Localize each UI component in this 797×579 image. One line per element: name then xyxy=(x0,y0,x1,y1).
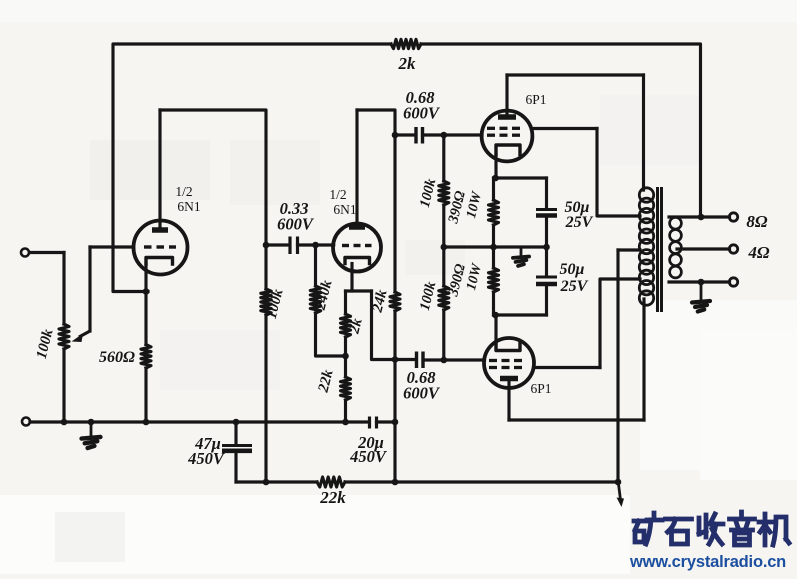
junction 50u rail xyxy=(543,244,550,251)
junction V2 anode node / C3 xyxy=(392,132,399,139)
svg-text:1/2: 1/2 xyxy=(329,187,346,202)
capacitor C9 20u/450V plates xyxy=(370,417,377,429)
output terminal common xyxy=(729,278,737,286)
svg-text:450V: 450V xyxy=(187,449,226,468)
V2 cathode bracket xyxy=(345,258,370,264)
junction V4 cathode xyxy=(492,312,499,319)
wire V2 cathode branch to C5 node xyxy=(372,291,396,360)
wire rail to C7 xyxy=(545,247,548,276)
wire 390ohm to rail (V4) xyxy=(492,247,495,268)
V2 anode plate bar xyxy=(349,224,365,230)
capacitor C3 0.68/600V plates xyxy=(416,127,423,144)
wire V1 cathode down xyxy=(144,264,147,292)
junction V4 grid node xyxy=(441,357,448,364)
capacitor C8 47u/450V plates xyxy=(222,446,252,451)
wire 390ohm to rail xyxy=(492,225,495,247)
svg-text:25V: 25V xyxy=(565,214,594,231)
wire V2 grid to 240k xyxy=(314,245,317,286)
wire bias rail down xyxy=(442,247,445,286)
svg-text:1/2: 1/2 xyxy=(175,184,192,199)
wire V1 grid line xyxy=(90,245,134,248)
wire ground stub (rail) xyxy=(520,247,523,256)
junction grid-return xyxy=(441,244,448,251)
V3 grid dashes (g1,g2) xyxy=(487,128,520,135)
wire V3 anode to primary top xyxy=(507,73,644,76)
junction 47u-ground xyxy=(233,419,240,426)
watermark logotype xyxy=(634,512,789,545)
junction C5 node xyxy=(392,356,399,363)
svg-text:6P1: 6P1 xyxy=(530,381,551,396)
wire 240k to tail junction xyxy=(316,313,346,356)
potentiometer wiper arrow xyxy=(72,331,91,342)
wire B+ riser xyxy=(616,250,619,482)
transformer T1 core xyxy=(658,187,662,312)
wire grid column of V1 down to wiper xyxy=(88,247,91,331)
wire C9 to B+ column xyxy=(377,420,396,423)
junction V1 anode node xyxy=(263,242,270,249)
capacitor C7 50u/25V plates xyxy=(536,277,557,284)
wire V4 anode to primary bottom xyxy=(509,418,644,421)
wire V4 cathode up xyxy=(494,315,497,344)
junction pot-ground xyxy=(61,419,68,426)
V2 grid dashes xyxy=(342,244,372,247)
svg-text:450V: 450V xyxy=(349,447,388,466)
wire to C2 xyxy=(266,243,288,246)
wire C6 to rail xyxy=(545,217,548,247)
capacitor C6 50u/25V plates xyxy=(536,210,557,216)
junction B+ riser xyxy=(615,479,622,486)
wire into V2 grid xyxy=(316,243,334,246)
wire V3 screen to primary tap xyxy=(597,129,640,217)
ground symbol G1 xyxy=(82,437,101,448)
svg-text:8Ω: 8Ω xyxy=(746,212,768,231)
wire to C6 xyxy=(545,178,548,208)
junction V3 cathode xyxy=(492,175,499,182)
V1 anode plate bar xyxy=(152,227,168,233)
ground symbol G2 xyxy=(513,257,529,266)
svg-text:600V: 600V xyxy=(277,215,315,234)
wire V2 anode loop xyxy=(357,110,395,135)
pentode V4 6P1 envelope xyxy=(484,338,534,388)
wire primary bottom riser xyxy=(642,299,645,420)
junction V2 grid node xyxy=(312,242,319,249)
wire to 390ohm xyxy=(492,178,495,200)
resistor Rk3 390ohm 10W xyxy=(489,200,499,225)
wire to 2k xyxy=(344,291,347,314)
wire to C5 xyxy=(395,358,415,361)
wire to C3 xyxy=(395,133,415,136)
output terminal 4-ohm xyxy=(729,245,737,253)
wire V3 cathode row xyxy=(494,176,547,179)
wire B2 rail xyxy=(236,480,317,483)
svg-text:560Ω: 560Ω xyxy=(99,349,135,366)
wire 24k to B+ rail xyxy=(393,311,396,482)
wire ground stub xyxy=(90,422,93,436)
wire output-stage ground rail xyxy=(444,245,547,248)
wire V4 anode down xyxy=(507,381,510,420)
wire pot bottom to ground rail xyxy=(62,349,65,422)
wire feedback from V1 cathode to top rail xyxy=(113,44,391,292)
junction ground-symbol stub xyxy=(88,419,95,426)
junction 22k-ground xyxy=(342,419,349,426)
wire C3 to V3 grid node xyxy=(423,133,444,136)
junction secondary ground xyxy=(698,279,705,286)
wire V3 anode riser xyxy=(505,75,508,115)
wire ground to C8 xyxy=(234,422,237,444)
wire V3 grid node down xyxy=(442,135,445,181)
wire C7 to V4 cathode row xyxy=(545,285,548,315)
input terminal J2 (ground) xyxy=(22,418,30,426)
resistor R-tail 22k xyxy=(341,377,351,400)
resistor Rg4 100k xyxy=(439,286,449,310)
wire V2 cathode down xyxy=(350,264,353,292)
triode V2 1/2 6N1 envelope xyxy=(333,224,381,272)
wire B+ rail bottom xyxy=(345,480,618,483)
wire anode node down xyxy=(264,245,267,289)
wire tail to 22k xyxy=(344,356,347,377)
wire V2 anode node down to 24k xyxy=(393,135,396,292)
svg-text:50μ: 50μ xyxy=(560,261,585,278)
junction Ra1-B2 xyxy=(263,479,270,486)
output terminal 8-ohm xyxy=(729,213,737,221)
wire C5 to V4 grid node xyxy=(423,358,444,361)
V4 cathode bracket (inverted) xyxy=(496,344,520,351)
svg-text:6N1: 6N1 xyxy=(177,199,200,214)
wire to 560ohm xyxy=(144,292,147,345)
V4 grid dashes (g1,g2) xyxy=(489,361,522,368)
wire V4 screen xyxy=(534,366,601,369)
wire secondary bottom xyxy=(669,280,730,283)
capacitor C2 0.33/600V plates xyxy=(290,237,298,255)
resistor Ra1 100k xyxy=(261,289,271,315)
V3 anode plate bar xyxy=(498,114,516,120)
transformer T1 secondary winding xyxy=(670,217,682,278)
resistor Rk4 390ohm 10W xyxy=(489,268,499,292)
resistor Rg2 240k xyxy=(310,286,320,313)
svg-text:600V: 600V xyxy=(403,104,441,123)
pentode V3 6P1 envelope xyxy=(482,111,533,162)
wire 100k to bias rail xyxy=(442,205,445,247)
wire into V4 grid xyxy=(444,358,485,361)
junction tail node xyxy=(342,353,349,360)
wire 2k to tail xyxy=(344,337,347,356)
wire V2 anode riser xyxy=(355,110,358,225)
B+ supply arrow xyxy=(617,484,625,507)
svg-text:4Ω: 4Ω xyxy=(747,243,770,262)
wire into V3 grid xyxy=(444,133,482,136)
wire V1 anode loop to C2 node xyxy=(160,110,266,245)
triode V1 1/2 6N1 envelope xyxy=(134,221,188,275)
wire input to pot top xyxy=(30,251,65,254)
resistor R 24k xyxy=(390,292,400,311)
potentiometer RP 100k (element) xyxy=(59,324,69,349)
wire V2 cathode tee xyxy=(346,289,372,292)
svg-text:6N1: 6N1 xyxy=(333,202,356,217)
svg-text:2k: 2k xyxy=(398,54,417,73)
svg-text:22k: 22k xyxy=(319,488,346,507)
svg-text:25V: 25V xyxy=(560,278,589,295)
V1 grid dashes xyxy=(144,245,176,248)
wire pot top xyxy=(62,253,65,325)
resistor R-dropper 22k xyxy=(317,477,345,487)
input terminal J1 (signal) xyxy=(21,249,29,257)
resistor Rk2 2k xyxy=(341,314,351,337)
wire V4 cathode row xyxy=(494,313,547,316)
transformer T1 primary winding xyxy=(639,188,653,305)
V1 cathode bracket xyxy=(146,258,173,265)
wire 100k to V4 grid node xyxy=(442,310,445,360)
svg-text:6P1: 6P1 xyxy=(525,92,546,107)
resistor Rk1 560ohm xyxy=(141,345,151,369)
wire primary center tap (B+) xyxy=(618,248,640,251)
wire V3 cathode down xyxy=(494,155,497,179)
junction 20u link xyxy=(392,419,399,426)
wire secondary ground stub xyxy=(700,282,703,300)
wire 100k to B+ rail (crosses ground rail) xyxy=(264,315,267,482)
wire 560ohm to ground xyxy=(144,368,147,422)
junction 390ohm rail xyxy=(490,244,497,251)
junction 24k-B+ xyxy=(392,479,399,486)
junction V3 grid node xyxy=(441,132,448,139)
wire V1 anode riser xyxy=(158,110,161,228)
junction V1 cathode / feedback xyxy=(143,288,150,295)
wire feedback top rail to 8-ohm tap xyxy=(421,44,701,217)
wire ground rail xyxy=(30,420,369,423)
resistor Rg3 100k xyxy=(439,181,449,205)
wire C2 to V2 grid xyxy=(298,243,316,246)
ground symbol G3 xyxy=(692,301,710,312)
V3 cathode bracket xyxy=(496,145,520,155)
wire primary top riser xyxy=(642,75,645,190)
wire C8 to B2 rail xyxy=(234,452,237,482)
wire V3 screen xyxy=(532,127,598,130)
wire to 390ohm (V4) xyxy=(492,292,495,315)
svg-text:www.crystalradio.cn: www.crystalradio.cn xyxy=(629,553,786,571)
resistor R-fb 2k xyxy=(391,39,421,48)
wire secondary top to 8-ohm xyxy=(669,215,730,218)
wire V4 screen to primary tap xyxy=(600,279,640,368)
junction feedback tap xyxy=(698,214,705,221)
junction 560ohm-ground xyxy=(143,419,150,426)
capacitor C5 0.68/600V plates xyxy=(417,352,424,369)
wire 22k to ground xyxy=(344,400,347,422)
wire secondary tap to 4-ohm xyxy=(677,247,730,250)
V4 anode plate bar xyxy=(500,376,518,382)
svg-text:600V: 600V xyxy=(403,384,441,403)
